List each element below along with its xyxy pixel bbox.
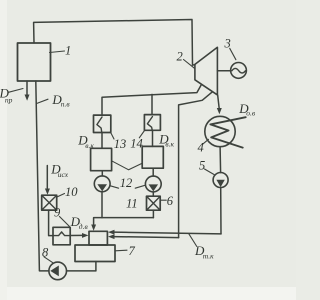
extraction B wire from turbine down right side: [179, 92, 213, 238]
wire box 6 down to merge line: [152, 210, 154, 217]
svg-text:д.в: д.в: [79, 222, 89, 231]
arrowhead D_pr: [25, 95, 30, 101]
wire left pump down: [101, 192, 103, 218]
leader D_t.k: [189, 234, 197, 246]
svg-text:2: 2: [177, 50, 183, 64]
leader 1: [50, 51, 65, 53]
arrowhead D_d.v into deaerator: [82, 233, 89, 238]
svg-text:1: 1: [65, 44, 71, 58]
deaerator head: [89, 231, 107, 245]
feedwater wire boiler to pump 8: [36, 81, 49, 271]
arrowhead lower right line into deaerator: [108, 234, 115, 239]
arrowhead D_iskh: [45, 189, 50, 195]
svg-text:14: 14: [130, 137, 143, 151]
svg-text:12: 12: [120, 176, 133, 190]
wire steam line boiler to turbine: [34, 20, 195, 66]
pump 12 right wire from consumer: [152, 168, 154, 176]
leader 5: [205, 169, 215, 175]
leader D_pr: [9, 89, 23, 93]
wire left consumer to pump: [101, 171, 103, 176]
leader 12 left: [110, 186, 118, 188]
turbine 2: [195, 47, 218, 95]
wire condenser to pump 5: [219, 147, 222, 173]
condensate merge wire: [94, 218, 154, 226]
svg-text:т.к: т.к: [203, 251, 214, 260]
wire box13 to consumer: [101, 133, 103, 149]
arrowhead upper right line into deaerator: [108, 230, 115, 235]
leader 7: [115, 249, 127, 252]
treatment box 10 with X: [42, 195, 57, 210]
generator U3: [231, 63, 247, 79]
svg-text:5: 5: [199, 159, 205, 173]
consumer box right: [142, 146, 163, 168]
pump 12 left: [94, 176, 110, 192]
reducing unit 14: [144, 115, 160, 131]
wire turbine condensate line D_t.k to deaerator (upper): [113, 232, 221, 234]
raw water D_iskh arrow wire: [46, 166, 48, 190]
leader 14: [139, 131, 144, 138]
pump 5 rotor: [216, 180, 224, 187]
leader 2: [184, 60, 195, 69]
arrowhead turbine to condenser: [217, 108, 222, 114]
condenser 4: [205, 116, 235, 146]
svg-text:п.в: п.в: [61, 100, 71, 109]
wire pump 8 to tank 7: [67, 262, 96, 271]
boiler 1: [18, 43, 51, 81]
pump 8: [49, 262, 67, 280]
extraction A wire from turbine to heater branches: [102, 85, 201, 115]
deaerator tank 7: [75, 245, 115, 262]
svg-text:4: 4: [198, 141, 204, 155]
pump 5: [213, 173, 228, 188]
wire box14 to consumer: [152, 130, 154, 146]
svg-text:13: 13: [114, 137, 127, 151]
pump 8 rotor: [50, 266, 59, 277]
svg-text:7: 7: [129, 244, 136, 258]
svg-text:исх: исх: [58, 170, 69, 179]
wire branch to box 14: [151, 94, 153, 114]
pump 12 right rotor: [149, 184, 159, 191]
leader 4: [203, 139, 209, 144]
wire right pump to box 6: [152, 192, 154, 196]
svg-text:11: 11: [126, 196, 138, 210]
wire extraction B to deaerator (lower): [113, 237, 179, 238]
svg-text:6: 6: [167, 194, 174, 208]
leader 8: [44, 257, 53, 263]
wire cooler 9 to deaerator D_d.v: [70, 234, 82, 236]
svg-text:в.к: в.к: [165, 140, 174, 149]
leader 10: [57, 194, 65, 198]
wire box 10 to cooler 9: [49, 210, 53, 236]
pump 12 left rotor: [97, 184, 107, 191]
svg-text:о.в: о.в: [246, 109, 256, 118]
leader D_p.v: [37, 99, 48, 103]
blowdown D_pr arrow wire: [26, 81, 28, 96]
svg-text:8: 8: [42, 246, 49, 260]
svg-text:9: 9: [54, 206, 61, 220]
leader 6: [160, 199, 166, 201]
leader 12 right: [135, 185, 145, 188]
pump 12 right: [145, 176, 161, 192]
wire turbine to condenser with arrow: [218, 95, 220, 108]
svg-text:3: 3: [224, 37, 231, 51]
svg-text:в.к: в.к: [85, 141, 94, 150]
treatment box 6 with X: [147, 196, 161, 210]
svg-text:пр: пр: [5, 96, 13, 105]
leader V between consumer boxes: [112, 161, 143, 170]
leader 13: [110, 132, 114, 139]
cooling water line D_o.v through condenser: [210, 117, 245, 147]
svg-text:10: 10: [65, 185, 78, 199]
leader 3: [230, 48, 236, 59]
leader 9: [60, 217, 70, 227]
wire turbine shaft: [217, 70, 230, 72]
reducing unit 13: [94, 115, 111, 132]
arrowhead into deaerator top: [91, 225, 96, 231]
consumer box left: [91, 148, 112, 170]
cooler 9: [53, 227, 70, 245]
wire pump 5 down to turbine condensate line: [220, 188, 222, 234]
